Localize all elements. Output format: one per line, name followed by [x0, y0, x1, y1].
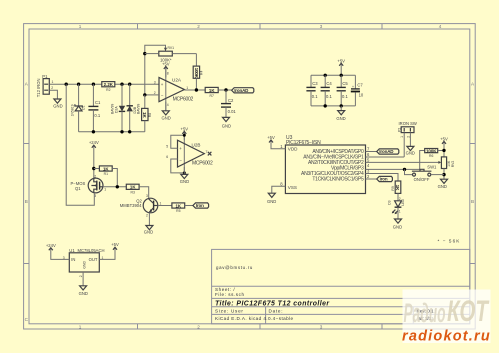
svg-text:+: + [161, 82, 164, 87]
svg-text:−: − [161, 93, 164, 98]
frame ticks and labels [24, 24, 476, 329]
svg-text:R4: R4 [200, 71, 204, 75]
svg-text:3: 3 [154, 80, 156, 84]
svg-text:1: 1 [52, 80, 54, 84]
svg-text:Title: PIC12F675 T12 controlle: Title: PIC12F675 T12 controller [215, 301, 330, 308]
node rail D2B [128, 130, 131, 133]
svg-text:D2A: D2A [115, 106, 119, 113]
wire cap bank bottom rail [311, 105, 355, 107]
capacitor C4 [321, 75, 333, 106]
svg-text:OUT: OUT [89, 257, 98, 262]
svg-text:IronAD: IronAD [379, 149, 394, 154]
transistor Q1 P-MOS [71, 175, 107, 199]
node gate [116, 185, 119, 188]
wire pin2 GP5 [366, 178, 377, 180]
node bottom C5 [340, 104, 343, 107]
svg-text:100K: 100K [194, 68, 199, 79]
svg-text:2: 2 [197, 324, 200, 329]
svg-text:GND: GND [267, 199, 276, 204]
node RV1 left [143, 52, 146, 55]
IC U3 PIC12F675 [280, 135, 370, 194]
resistor R3 [126, 184, 148, 198]
svg-text:LED: LED [401, 198, 405, 205]
power +5V U2B [181, 126, 189, 140]
svg-text:2: 2 [406, 136, 410, 138]
wire P2 pin1 to GP1 [403, 133, 405, 157]
svg-text:IN: IN [71, 257, 75, 262]
svg-text:2: 2 [79, 275, 83, 277]
node output [195, 88, 198, 91]
capacitor C2 [221, 90, 236, 117]
svg-text:GND: GND [162, 116, 171, 121]
svg-text:+: + [179, 146, 182, 151]
svg-text:RV2: RV2 [451, 161, 455, 168]
svg-text:VSS: VSS [288, 185, 297, 190]
svg-text:D1: D1 [82, 106, 86, 110]
svg-text:R2: R2 [106, 88, 110, 92]
wire base row [158, 205, 172, 207]
svg-text:IRON SW: IRON SW [399, 121, 417, 126]
resistor R8 gain [142, 95, 152, 132]
svg-text:R9: R9 [391, 186, 395, 190]
svg-text:3: 3 [320, 24, 323, 29]
svg-text:0.1: 0.1 [342, 94, 348, 99]
node RV2 SW1 gnd [442, 173, 445, 176]
svg-text:1K: 1K [209, 88, 215, 93]
svg-text:2.2K: 2.2K [104, 82, 114, 87]
svg-text:GND: GND [53, 103, 62, 108]
svg-text:KiCad E.D.A. kicad 4.0.4−stab: KiCad E.D.A. kicad 4.0.4−stable [215, 316, 294, 321]
wire P1 pin2 to GND [49, 90, 57, 99]
transistor Q2 MMBT3904 [120, 194, 162, 217]
svg-text:100K: 100K [426, 148, 437, 153]
svg-text:Радио: Радио [404, 298, 446, 328]
svg-text:U2A: U2A [172, 78, 182, 83]
svg-text:1K: 1K [103, 166, 109, 171]
svg-text:C5: C5 [342, 81, 348, 86]
no-connect U2B out [208, 152, 212, 156]
ground P2 [407, 146, 414, 150]
wire VSS to gnd [272, 186, 286, 193]
resistor R9 LED [391, 181, 401, 201]
connector P1 T12 IRON [36, 74, 54, 97]
resistor R7 [205, 87, 231, 97]
svg-text:R6: R6 [429, 154, 433, 158]
regulator U1 MC78L05ACH [63, 248, 105, 277]
svg-text:radiokot.ru: radiokot.ru [402, 329, 491, 345]
svg-text:R1: R1 [104, 172, 108, 176]
svg-text:BAV99: BAV99 [137, 104, 141, 114]
wire P2 pin2 to gnd [409, 133, 411, 147]
ground D3 [395, 219, 402, 223]
svg-text:4: 4 [439, 24, 442, 29]
svg-text:1N5819: 1N5819 [71, 104, 75, 116]
capacitor C3 [306, 75, 318, 106]
svg-text:C4: C4 [326, 81, 332, 86]
ground U2B [183, 167, 185, 174]
potentiometer RV1 100K* [145, 46, 197, 63]
svg-text:T12 IRON: T12 IRON [36, 78, 41, 97]
svg-text:Q1: Q1 [75, 186, 81, 191]
wire pin3 GP4 [366, 174, 399, 182]
svg-text:1: 1 [104, 187, 106, 191]
svg-text:8: 8 [167, 72, 169, 76]
svg-text:C7: C7 [357, 83, 363, 88]
svg-text:GND: GND [222, 123, 231, 128]
wire bottom rail [79, 131, 145, 133]
wire inverting input [145, 94, 159, 96]
svg-text:5: 5 [166, 144, 168, 148]
diode D1 1N5819 [71, 84, 86, 132]
svg-text:GND: GND [82, 261, 86, 269]
svg-text:MMBT3904: MMBT3904 [120, 203, 142, 208]
svg-text:P1: P1 [42, 74, 48, 79]
resistor R5 [172, 203, 193, 213]
svg-text:1K: 1K [130, 185, 136, 190]
power +24V Q1 [89, 140, 99, 178]
wire main input row [49, 83, 159, 85]
svg-text:C1: C1 [95, 100, 101, 105]
svg-text:0.1: 0.1 [94, 113, 100, 118]
svg-text:GND: GND [438, 184, 447, 189]
svg-text:IronAD: IronAD [234, 88, 249, 93]
svg-text:P2: P2 [397, 128, 401, 132]
capacitor C1 [88, 84, 101, 132]
ground C2 [223, 117, 230, 121]
svg-text:1: 1 [400, 136, 404, 138]
node pin2 [143, 93, 146, 96]
node D2A [120, 83, 123, 86]
svg-text:ON/OFF: ON/OFF [414, 177, 430, 182]
svg-text:2: 2 [94, 175, 96, 179]
node rail D2A [120, 130, 123, 133]
svg-text:3: 3 [320, 324, 323, 329]
svg-text:SW1: SW1 [427, 165, 437, 170]
svg-text:1: 1 [79, 24, 82, 29]
capacitor C5 [337, 75, 349, 106]
svg-text:2: 2 [146, 214, 148, 218]
svg-text:Iron: Iron [380, 177, 388, 182]
svg-text:1K: 1K [175, 203, 181, 208]
ground U2A [165, 102, 167, 111]
label IronAD [232, 88, 254, 93]
svg-text:MCP6002: MCP6002 [192, 161, 213, 167]
svg-text:C3: C3 [312, 81, 318, 86]
diode D2B BAV99 [127, 84, 141, 132]
svg-text:GND: GND [144, 230, 153, 235]
svg-text:GND: GND [180, 179, 189, 184]
svg-text:3: 3 [146, 194, 148, 198]
capacitor C7 polarized [351, 75, 364, 106]
node D1 [77, 83, 80, 86]
power +5V U3 [267, 135, 285, 149]
svg-text:D3: D3 [388, 200, 392, 204]
svg-text:GND: GND [79, 291, 88, 296]
svg-text:Date:: Date: [269, 309, 284, 314]
svg-text:0.1: 0.1 [326, 94, 332, 99]
svg-text:10: 10 [359, 93, 364, 98]
resistor R1 [94, 166, 118, 187]
svg-text:100K*: 100K* [160, 58, 172, 63]
svg-text:VDD: VDD [288, 146, 298, 151]
svg-text:U1: U1 [69, 248, 75, 253]
svg-text:T1CKI/CLKIN/OSC1/GP5: T1CKI/CLKIN/OSC1/GP5 [312, 177, 364, 183]
connector P2 IRON SW [397, 121, 417, 138]
node input row / heater loop [65, 83, 68, 86]
svg-text:Iron: Iron [196, 203, 204, 208]
wire U2B pin6 tie to GND [171, 159, 185, 173]
ground P1 [54, 99, 61, 103]
svg-text:7: 7 [206, 150, 208, 154]
svg-text:R8: R8 [148, 113, 152, 117]
power +5V RV2 [440, 136, 448, 157]
svg-text:R5: R5 [176, 209, 180, 213]
wire pin4 GP3 [366, 168, 420, 170]
frame outer [24, 24, 476, 329]
node D2B [128, 83, 131, 86]
resistor R4 [193, 54, 203, 90]
svg-text:GND: GND [406, 151, 415, 156]
power +24V U1 [46, 243, 69, 260]
power +5V U1 [99, 242, 119, 259]
svg-text:+: + [352, 85, 354, 89]
wire cap bank top rail [311, 74, 355, 76]
svg-text:MC78L05ACH: MC78L05ACH [78, 248, 105, 253]
svg-text:PIC12F675−I/SN: PIC12F675−I/SN [286, 140, 321, 146]
ground Q2 [148, 213, 150, 226]
label Iron Q2 [193, 203, 209, 208]
svg-text:2: 2 [51, 86, 53, 90]
svg-text:КОТ: КОТ [447, 295, 490, 328]
svg-text:GND: GND [336, 116, 345, 121]
node C1 [92, 83, 95, 86]
svg-text:C2: C2 [228, 98, 234, 103]
svg-text:1K: 1K [395, 185, 400, 192]
svg-text:gav@bmstu.ru: gav@bmstu.ru [216, 265, 253, 270]
ground RV2 [441, 179, 448, 183]
resistor R2 [102, 82, 115, 92]
svg-text:0.01: 0.01 [228, 109, 237, 114]
svg-text:1: 1 [399, 209, 401, 213]
ground U1 [82, 272, 84, 286]
wire heater loop [66, 84, 94, 205]
resistor R6 [420, 148, 444, 169]
ground U3 [268, 193, 275, 197]
svg-text:B: B [25, 199, 28, 204]
frame inner [29, 29, 470, 324]
svg-text:Size: User: Size: User [215, 309, 244, 314]
op-amp U2B [166, 131, 213, 174]
svg-text:2: 2 [399, 197, 401, 201]
svg-text:R3: R3 [131, 191, 135, 195]
node top C5 [340, 74, 343, 77]
node bottom C4 [324, 104, 327, 107]
svg-text:1: 1 [79, 324, 82, 329]
svg-text:B: B [471, 199, 474, 204]
switch SW1 ON/OFF [405, 165, 445, 183]
wire pin6 GP1 [366, 156, 405, 158]
node top C4 [324, 74, 327, 77]
svg-text:0.1: 0.1 [312, 94, 318, 99]
svg-text:* − 56K: * − 56K [438, 239, 461, 244]
power +5V cap bank [337, 58, 345, 75]
wire gate row [103, 186, 126, 188]
svg-text:U2B: U2B [192, 143, 201, 148]
svg-text:MCP6002: MCP6002 [173, 97, 194, 103]
node R7 C2 [224, 88, 227, 91]
wire pin7 GP0 [366, 151, 377, 153]
wire output [184, 89, 205, 91]
node R6 +5V RV2 [442, 149, 445, 152]
diode D3 LED [388, 197, 405, 219]
node R1 source [92, 167, 95, 170]
svg-text:RV1: RV1 [168, 46, 175, 50]
wire feedback vertical [145, 45, 166, 95]
svg-text:GND: GND [393, 224, 402, 229]
ground cap bank [340, 106, 342, 111]
svg-text:6: 6 [166, 155, 168, 159]
op-amp U2A [154, 67, 194, 111]
diode D2A BAV99 [111, 84, 126, 132]
svg-text:4: 4 [167, 103, 169, 107]
watermark [402, 290, 491, 345]
title block [212, 249, 470, 323]
label IronAD GP0 [377, 149, 399, 154]
power +5V U2A [162, 62, 170, 78]
svg-text:1K: 1K [142, 112, 147, 119]
svg-text:1: 1 [186, 86, 188, 90]
potentiometer RV2 10K [438, 157, 454, 179]
wire pin5 GP2 to RV2 wiper [366, 161, 439, 163]
svg-text:2: 2 [197, 24, 200, 29]
node GP3 P2 [403, 168, 406, 171]
svg-text:−: − [179, 157, 182, 162]
svg-text:File: ss.sch: File: ss.sch [215, 292, 245, 297]
wire U2B pin5 tie to +5V [171, 135, 185, 148]
label Iron GP5 [377, 176, 393, 181]
svg-text:R7: R7 [210, 94, 214, 98]
node rail C1 [92, 130, 95, 133]
